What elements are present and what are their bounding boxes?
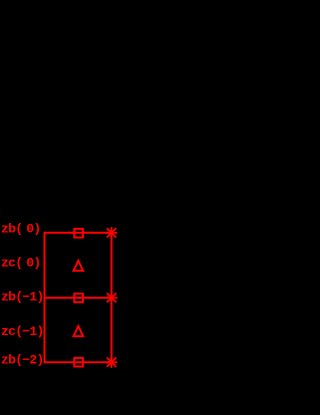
- wire right vertical bus: [111, 233, 113, 362]
- wire row 3 horizontal: [44, 361, 112, 363]
- delay block D2 (square): [74, 294, 83, 303]
- svg-text:zb(−1): zb(−1): [1, 290, 44, 305]
- svg-text:0): 0): [26, 222, 40, 237]
- svg-text:zb(: zb(: [1, 222, 22, 237]
- wire row 1 horizontal: [44, 232, 112, 234]
- svg-text:zc(: zc(: [1, 256, 22, 271]
- gain G2 (triangle): [74, 326, 84, 336]
- node N1 (asterisk): [106, 227, 118, 239]
- node N2 (asterisk): [106, 292, 118, 304]
- svg-text:0): 0): [26, 256, 40, 271]
- svg-text:zb(−2): zb(−2): [1, 353, 44, 368]
- wire left vertical bus: [44, 232, 46, 363]
- delay block D1 (square): [74, 229, 83, 238]
- gain G1 (triangle): [74, 261, 84, 271]
- node N3 (asterisk): [106, 356, 118, 368]
- svg-text:zc(−1): zc(−1): [1, 324, 44, 339]
- delay block D3 (square): [74, 358, 83, 367]
- wire row 2 horizontal: [44, 297, 112, 299]
